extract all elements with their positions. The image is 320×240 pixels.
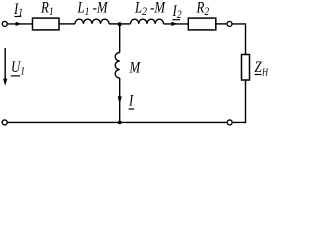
current arrow I1	[16, 22, 22, 26]
wire (middle branch lower)	[119, 78, 121, 122]
node B (bottom junction)	[118, 121, 122, 125]
wire	[164, 23, 189, 25]
svg-text:L2 -M: L2 -M	[134, 0, 166, 19]
wire	[8, 121, 227, 123]
wire (middle branch upper)	[119, 24, 121, 53]
wire	[8, 23, 33, 25]
node A (top junction)	[118, 22, 122, 26]
inductor L1-M	[75, 19, 109, 24]
svg-text:L1 -M: L1 -M	[77, 0, 109, 19]
wire	[120, 23, 131, 25]
inductor M	[115, 53, 119, 79]
resistor R2	[188, 18, 216, 30]
load Zн	[242, 55, 250, 81]
terminal T2 (output top)	[227, 21, 232, 26]
wire	[59, 23, 75, 25]
resistor R1	[33, 18, 60, 30]
inductor L2-M	[131, 19, 164, 24]
terminal T4 (input bottom)	[2, 120, 7, 125]
terminal T3 (output bottom)	[227, 120, 232, 125]
voltage arrow U1	[4, 48, 6, 84]
current arrow I (middle branch)	[118, 96, 122, 104]
wire	[216, 23, 227, 25]
wire	[109, 23, 120, 25]
current arrow I2	[171, 22, 177, 26]
wire	[233, 80, 246, 122]
svg-text:M: M	[129, 59, 141, 77]
wire	[232, 24, 245, 55]
terminal T1 (input top)	[2, 21, 7, 26]
